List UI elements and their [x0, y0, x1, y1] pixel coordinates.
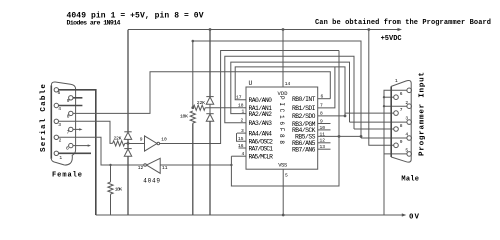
- wire pin 16 stub: [239, 147, 247, 149]
- node arrow J1 pin7: [79, 128, 82, 130]
- pin 9 of J1: [69, 96, 73, 100]
- pin 5 of J1: [54, 88, 58, 92]
- svg-text:U: U: [249, 80, 253, 87]
- pin 7 of J1: [69, 127, 73, 131]
- svg-text:+5VDC: +5VDC: [381, 35, 402, 43]
- svg-text:4049: 4049: [143, 177, 160, 184]
- wire J1 pin4 stub: [59, 105, 83, 107]
- wire R3 and clamp node to IC pin 18: [205, 107, 246, 109]
- wire 0V rail: [96, 214, 404, 216]
- svg-text:22K: 22K: [114, 135, 122, 141]
- wire R1 to node A: [125, 142, 128, 144]
- wire +5V drop to programmer pin 9: [369, 30, 394, 146]
- pin 6 of J1: [69, 143, 73, 147]
- diode D3 clamp to +5V: [206, 30, 213, 114]
- wire programmer ground chain: [384, 90, 407, 215]
- pin 8 of J2: [394, 127, 399, 132]
- svg-text:4: 4: [405, 132, 408, 138]
- wire rail61 drop to programmer pin 3: [350, 121, 407, 123]
- wire pin 4 to U1B input net: [231, 155, 246, 157]
- svg-text:RA5/MCLR: RA5/MCLR: [249, 153, 274, 160]
- pin 1 of J2: [407, 88, 412, 93]
- svg-text:5: 5: [285, 173, 288, 179]
- wire pin 2 to rail56: [225, 56, 354, 129]
- wire J1 pin7 stub: [73, 128, 81, 130]
- svg-text:12: 12: [138, 165, 144, 171]
- pin 9 of J2: [394, 143, 399, 148]
- svg-text:10: 10: [161, 136, 167, 142]
- svg-text:7: 7: [67, 130, 70, 136]
- svg-text:11: 11: [162, 165, 168, 171]
- svg-text:10K: 10K: [115, 186, 123, 192]
- wire pin 11 to programmer pin 4 row: [318, 135, 361, 137]
- pin 4 of J2: [407, 136, 412, 141]
- diode D2 clamp to 0V: [124, 149, 131, 157]
- wire rail65 drop to programmer pin 7: [345, 112, 394, 114]
- connector J2 programmer DB9 male body: [391, 80, 411, 162]
- wire rail41 drop to programmer pin 4: [361, 137, 407, 139]
- connector J1 serial DB9 female body: [51, 82, 75, 165]
- svg-text:RA4/AN4: RA4/AN4: [249, 130, 273, 137]
- wire J1 pin5 GND to 0V rail: [59, 90, 96, 215]
- pin 2 of J2: [407, 104, 412, 109]
- wire pin 1 to rail61: [231, 62, 350, 122]
- svg-text:3: 3: [405, 116, 408, 122]
- svg-text:9: 9: [400, 139, 403, 145]
- svg-text:RA3/AN3: RA3/AN3: [249, 120, 273, 127]
- svg-text:RB0/INT: RB0/INT: [292, 96, 316, 103]
- wire J1 pin2 RxD from inverter U1B output: [59, 137, 144, 165]
- op-amp U1A 4049 inverter: [145, 136, 160, 151]
- pin 7 of J2: [394, 111, 399, 116]
- svg-text:Male: Male: [401, 176, 419, 184]
- svg-text:4: 4: [58, 106, 61, 112]
- svg-text:RA2/AN2: RA2/AN2: [249, 111, 273, 118]
- node arrow J1 pin6: [88, 144, 91, 146]
- wire D2 anode to 0V rail: [127, 156, 129, 215]
- wire +5V rail: [128, 29, 399, 31]
- wire programmer pin 6 to ground chain: [384, 96, 394, 98]
- wire J1 pin9 stub: [73, 97, 82, 99]
- svg-text:VSS: VSS: [278, 162, 287, 168]
- svg-text:RA0/AN0: RA0/AN0: [249, 97, 273, 104]
- resistor R1 22K: [113, 141, 125, 146]
- pin 4 of J1: [54, 103, 58, 107]
- svg-text:Female: Female: [52, 172, 82, 180]
- svg-text:9: 9: [67, 98, 70, 104]
- wire programmer pin 2 to ground chain: [384, 105, 407, 107]
- svg-text:1: 1: [59, 155, 62, 161]
- svg-text:1: 1: [395, 78, 398, 84]
- pin 8 of J1: [69, 111, 73, 115]
- wire MCLR net vertical and VPP return: [231, 51, 339, 187]
- wire VSS pin 5 to 0V rail: [282, 169, 284, 215]
- resistor R3 22K: [193, 105, 205, 110]
- resistor R4 10K: [190, 111, 195, 215]
- wire J1 pin3 TxD to 22K resistor: [59, 121, 113, 143]
- svg-text:RB1/SDI: RB1/SDI: [292, 105, 316, 112]
- svg-text:8: 8: [400, 123, 403, 129]
- pin 3 of J1: [54, 119, 58, 123]
- wire programmer pin 5 to ground chain: [384, 153, 407, 155]
- wire rail56 drop to programmer pin 8: [354, 128, 394, 130]
- pin 6 of J2: [394, 95, 399, 100]
- svg-text:3: 3: [58, 122, 61, 128]
- pin 2 of J1: [54, 135, 58, 139]
- svg-text:5: 5: [58, 90, 61, 96]
- resistor R2 10K pulldown: [108, 165, 113, 215]
- svg-text:10K: 10K: [180, 114, 188, 120]
- svg-text:RB2/SDO: RB2/SDO: [292, 113, 316, 120]
- svg-text:7: 7: [400, 107, 403, 113]
- svg-text:8: 8: [67, 114, 70, 120]
- pin 3 of J2: [407, 120, 412, 125]
- svg-text:Can be obtained from the Progr: Can be obtained from the Programmer Boar…: [315, 19, 491, 27]
- diode D4 clamp to 0V: [206, 114, 213, 215]
- svg-text:RB7/AN6: RB7/AN6: [292, 147, 316, 154]
- wire U1A output to rail riser: [160, 51, 339, 144]
- wire pin 3 stub: [237, 132, 246, 134]
- node 0V arrow tip: [402, 213, 407, 216]
- svg-text:5: 5: [405, 148, 408, 154]
- wire pin 15 and rail69 riser: [237, 133, 247, 141]
- wire VDD pin 14 riser: [282, 30, 284, 88]
- wire U1B input net: [160, 164, 231, 166]
- svg-text:Serial Cable: Serial Cable: [40, 84, 48, 152]
- svg-text:9: 9: [140, 137, 143, 143]
- pin 5 of J2: [407, 152, 412, 157]
- svg-text:14: 14: [285, 81, 291, 87]
- svg-text:RA7/OSC1: RA7/OSC1: [249, 145, 274, 152]
- node +5V arrow tip: [398, 28, 403, 31]
- wire node A vertical: [127, 139, 129, 148]
- svg-text:Programmer Input: Programmer Input: [419, 72, 427, 156]
- op-amp U1B 4049 inverter: [144, 158, 160, 173]
- svg-text:0V: 0V: [409, 213, 419, 221]
- IC U2 PIC16F88 body: [246, 87, 318, 169]
- svg-text:18: 18: [238, 102, 244, 108]
- wire node A to U1A input: [128, 143, 145, 145]
- svg-text:6: 6: [400, 91, 403, 97]
- node junction dots: [109, 28, 385, 216]
- wire J1 pin1 stub: [59, 152, 92, 154]
- wire J1 pin8 CTS to RB0 riser: [73, 72, 330, 114]
- svg-text:22K: 22K: [197, 100, 205, 106]
- pin 1 of J1: [54, 151, 58, 155]
- svg-text:2: 2: [405, 100, 408, 106]
- svg-text:2: 2: [59, 138, 62, 144]
- wire rail41 riser to R3: [193, 41, 361, 138]
- wire J1 pin6 stub: [73, 145, 89, 147]
- diode D1 clamp to +5V: [124, 132, 131, 140]
- svg-text:6: 6: [66, 145, 69, 151]
- svg-text:Diodes are 1N914: Diodes are 1N914: [67, 20, 121, 27]
